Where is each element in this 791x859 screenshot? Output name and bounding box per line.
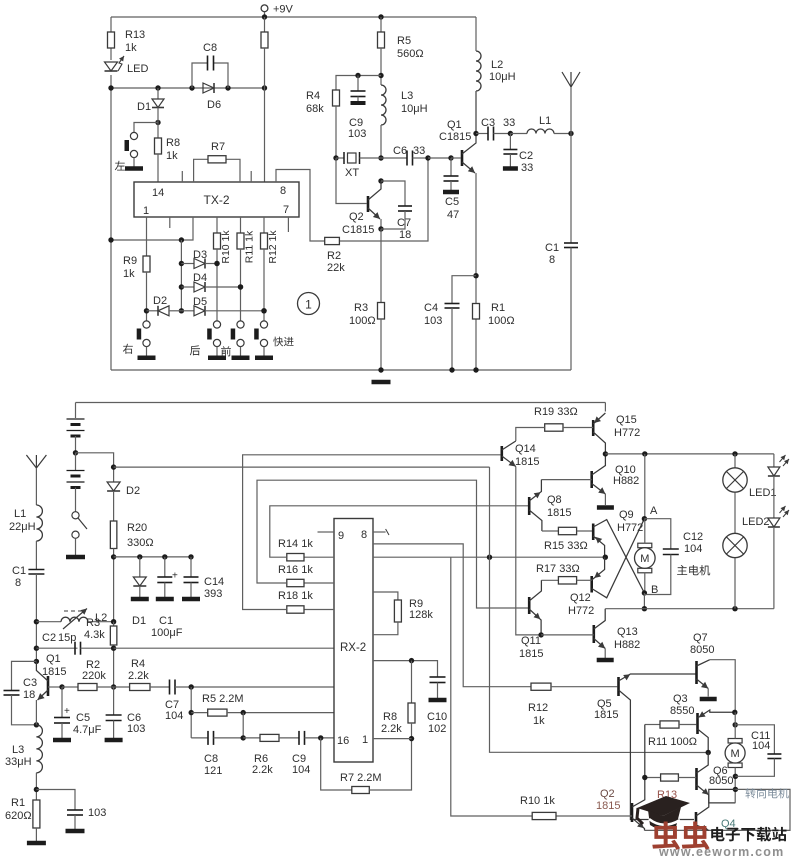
- svg-text:1815: 1815: [547, 507, 571, 519]
- svg-text:C7: C7: [397, 217, 411, 229]
- svg-text:R8: R8: [166, 137, 180, 149]
- svg-text:R12 1k: R12 1k: [267, 230, 279, 264]
- svg-text:L1: L1: [14, 508, 26, 520]
- svg-text:620Ω: 620Ω: [5, 810, 32, 822]
- svg-text:1: 1: [362, 734, 368, 746]
- svg-text:47: 47: [447, 209, 459, 221]
- svg-text:10μH: 10μH: [401, 103, 428, 115]
- svg-text:104: 104: [752, 740, 770, 752]
- svg-text:68k: 68k: [306, 103, 324, 115]
- svg-text:Q12: Q12: [570, 592, 591, 604]
- svg-text:C6: C6: [393, 145, 407, 157]
- svg-text:1k: 1k: [123, 268, 135, 280]
- svg-text:104: 104: [292, 764, 310, 776]
- svg-text:C14: C14: [204, 576, 224, 588]
- svg-text:D6: D6: [207, 99, 221, 111]
- svg-text:R1: R1: [11, 797, 25, 809]
- svg-text:C3: C3: [481, 117, 495, 129]
- svg-text:22μH: 22μH: [9, 521, 36, 533]
- svg-text:1815: 1815: [596, 800, 620, 812]
- svg-text:100Ω: 100Ω: [349, 315, 376, 327]
- svg-text:121: 121: [204, 765, 222, 777]
- svg-text:104: 104: [684, 543, 702, 555]
- svg-text:1: 1: [143, 205, 149, 217]
- svg-text:1815: 1815: [42, 666, 66, 678]
- svg-text:18: 18: [399, 229, 411, 241]
- svg-text:2.2k: 2.2k: [128, 670, 149, 682]
- svg-text:9: 9: [338, 530, 344, 542]
- svg-text:R17 33Ω: R17 33Ω: [536, 563, 580, 575]
- svg-text:Q8: Q8: [547, 494, 562, 506]
- svg-text:Q7: Q7: [693, 632, 708, 644]
- svg-text:C5: C5: [76, 712, 90, 724]
- svg-text:103: 103: [127, 723, 145, 735]
- svg-text:100μF: 100μF: [151, 627, 183, 639]
- svg-text:Q2: Q2: [349, 211, 364, 223]
- svg-text:Q2: Q2: [600, 788, 615, 800]
- svg-text:4.3k: 4.3k: [84, 629, 105, 641]
- svg-text:1k: 1k: [533, 715, 545, 727]
- svg-text:H882: H882: [614, 639, 640, 651]
- svg-text:100Ω: 100Ω: [488, 315, 515, 327]
- svg-text:R3: R3: [354, 302, 368, 314]
- svg-text:14: 14: [152, 187, 164, 199]
- svg-text:L2: L2: [491, 59, 503, 71]
- svg-text:C1: C1: [12, 565, 26, 577]
- svg-text:R14 1k: R14 1k: [278, 538, 313, 550]
- svg-text:33μH: 33μH: [5, 756, 32, 768]
- svg-text:C1: C1: [545, 242, 559, 254]
- svg-text:8: 8: [361, 529, 367, 541]
- svg-text:103: 103: [424, 315, 442, 327]
- svg-text:H772: H772: [568, 605, 594, 617]
- svg-text:33: 33: [503, 117, 515, 129]
- svg-text:R2: R2: [327, 250, 341, 262]
- svg-text:C2: C2: [519, 150, 533, 162]
- svg-text:R4: R4: [306, 90, 320, 102]
- svg-text:220k: 220k: [82, 670, 106, 682]
- svg-text:D1: D1: [132, 615, 146, 627]
- svg-text:560Ω: 560Ω: [397, 48, 424, 60]
- svg-text:M: M: [640, 553, 649, 565]
- svg-text:2.2k: 2.2k: [252, 764, 273, 776]
- svg-text:C10: C10: [427, 711, 447, 723]
- svg-text:L3: L3: [401, 90, 413, 102]
- svg-text:C5: C5: [445, 196, 459, 208]
- svg-text:Q15: Q15: [616, 414, 637, 426]
- svg-text:RX-2: RX-2: [340, 642, 366, 654]
- svg-text:18: 18: [23, 689, 35, 701]
- svg-text:33: 33: [413, 145, 425, 157]
- svg-text:+: +: [64, 706, 70, 717]
- svg-text:1815: 1815: [594, 709, 618, 721]
- svg-text:C1815: C1815: [439, 131, 471, 143]
- svg-text:10μH: 10μH: [489, 71, 516, 83]
- svg-text:+9V: +9V: [273, 4, 294, 16]
- svg-text:103: 103: [88, 807, 106, 819]
- svg-text:D2: D2: [126, 485, 140, 497]
- svg-text:R12: R12: [528, 702, 548, 714]
- svg-text:Q1: Q1: [447, 119, 462, 131]
- svg-text:R18 1k: R18 1k: [278, 590, 313, 602]
- svg-text:R10 1k: R10 1k: [520, 795, 555, 807]
- svg-text:22k: 22k: [327, 262, 345, 274]
- svg-text:XT: XT: [345, 167, 359, 179]
- svg-text:1815: 1815: [515, 456, 539, 468]
- svg-text:R10 1k: R10 1k: [220, 230, 232, 264]
- svg-text:8: 8: [15, 577, 21, 589]
- svg-text:C1815: C1815: [342, 224, 374, 236]
- svg-text:R13: R13: [125, 29, 145, 41]
- svg-text:www.eeworm.com: www.eeworm.com: [658, 845, 784, 859]
- svg-text:4.7μF: 4.7μF: [73, 724, 102, 736]
- svg-text:C1: C1: [159, 615, 173, 627]
- svg-text:Q11: Q11: [521, 635, 541, 647]
- svg-text:C4: C4: [424, 302, 438, 314]
- svg-text:8050: 8050: [709, 775, 733, 787]
- svg-text:R9: R9: [123, 255, 137, 267]
- svg-text:R15 33Ω: R15 33Ω: [544, 540, 588, 552]
- svg-text:1815: 1815: [519, 648, 543, 660]
- svg-text:R20: R20: [127, 522, 147, 534]
- svg-text:Q3: Q3: [673, 693, 688, 705]
- svg-text:16: 16: [337, 735, 349, 747]
- svg-text:102: 102: [428, 723, 446, 735]
- svg-text:R11 100Ω: R11 100Ω: [648, 736, 697, 748]
- svg-text:LED1: LED1: [749, 487, 777, 499]
- svg-text:128k: 128k: [409, 609, 433, 621]
- svg-text:104: 104: [165, 710, 183, 722]
- svg-text:L3: L3: [12, 744, 24, 756]
- svg-text:D1: D1: [137, 101, 151, 113]
- svg-text:R16 1k: R16 1k: [278, 564, 313, 576]
- svg-text:R7: R7: [211, 141, 225, 153]
- svg-text:D2: D2: [153, 295, 167, 307]
- svg-text:D3: D3: [193, 249, 207, 261]
- svg-text:7: 7: [283, 204, 289, 216]
- svg-text:8550: 8550: [670, 705, 694, 717]
- svg-text:M: M: [731, 748, 740, 760]
- svg-text:L1: L1: [539, 115, 551, 127]
- svg-text:330Ω: 330Ω: [127, 537, 154, 549]
- svg-text:H772: H772: [614, 427, 640, 439]
- svg-text:Q13: Q13: [617, 626, 638, 638]
- svg-text:8: 8: [280, 185, 286, 197]
- svg-text:1: 1: [305, 298, 312, 312]
- svg-text:2.2k: 2.2k: [381, 723, 402, 735]
- svg-text:R8: R8: [383, 711, 397, 723]
- svg-text:R19 33Ω: R19 33Ω: [534, 406, 578, 418]
- svg-text:C3: C3: [23, 677, 37, 689]
- svg-text:R5: R5: [397, 35, 411, 47]
- svg-text:R7 2.2M: R7 2.2M: [340, 772, 382, 784]
- svg-text:1k: 1k: [125, 42, 137, 54]
- svg-text:R11 1k: R11 1k: [244, 230, 256, 263]
- svg-text:TX-2: TX-2: [203, 193, 229, 207]
- svg-text:8: 8: [549, 254, 555, 266]
- svg-text:15p: 15p: [58, 632, 76, 644]
- svg-text:R1: R1: [491, 302, 505, 314]
- svg-text:8050: 8050: [690, 644, 714, 656]
- svg-text:R5 2.2M: R5 2.2M: [202, 693, 244, 705]
- svg-text:103: 103: [348, 128, 366, 140]
- svg-text:LED2: LED2: [742, 516, 770, 528]
- svg-text:R3: R3: [86, 617, 100, 629]
- svg-text:R4: R4: [131, 658, 145, 670]
- svg-text:C8: C8: [203, 42, 217, 54]
- svg-text:D4: D4: [193, 272, 207, 284]
- svg-text:H882: H882: [613, 475, 639, 487]
- svg-text:1k: 1k: [166, 150, 178, 162]
- svg-text:C12: C12: [683, 531, 703, 543]
- svg-text:Q9: Q9: [619, 509, 634, 521]
- svg-text:A: A: [650, 505, 658, 517]
- svg-text:Q14: Q14: [515, 443, 536, 455]
- svg-text:393: 393: [204, 588, 222, 600]
- svg-text:Q1: Q1: [46, 653, 61, 665]
- svg-text:+: +: [172, 571, 178, 582]
- svg-text:D5: D5: [193, 296, 207, 308]
- svg-text:C8: C8: [204, 753, 218, 765]
- svg-text:C2: C2: [42, 632, 56, 644]
- svg-text:33: 33: [521, 162, 533, 174]
- svg-text:LED: LED: [127, 63, 148, 75]
